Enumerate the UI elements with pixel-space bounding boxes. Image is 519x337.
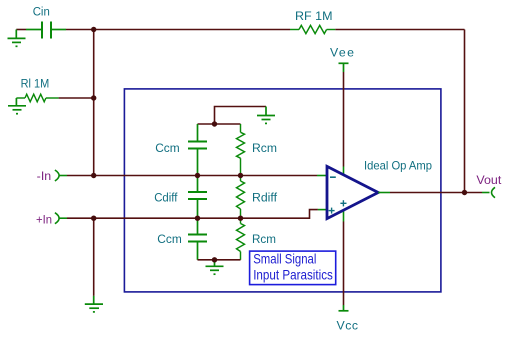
- wire: -In row: [67, 175, 317, 177]
- subcircuit box: [124, 89, 441, 292]
- wire: Rl to left rail: [59, 97, 94, 99]
- ground GND3 (bottom left): [85, 296, 103, 312]
- node: Rcm/+In junction: [238, 216, 243, 221]
- svg-text:Rl 1M: Rl 1M: [21, 77, 50, 91]
- op-amp minus mark: [330, 176, 336, 178]
- pin stub: op-amp top supply: [343, 167, 345, 177]
- pin stub: op-amp output: [378, 192, 390, 194]
- pin stub: op-amp inverting input: [317, 175, 327, 177]
- node Vcc symbol: [339, 305, 349, 311]
- op-amp plus mark (input): [329, 208, 335, 214]
- wire: op-amp bottom supply to Vcc: [343, 222, 345, 306]
- capacitor Cin: [26, 22, 66, 39]
- node: output junction: [462, 190, 467, 195]
- svg-text:Input Parasitics: Input Parasitics: [253, 266, 333, 282]
- wire: Vee to op-amp positive rail: [343, 72, 345, 167]
- capacitor Ccm (bottom): [188, 218, 207, 260]
- wire: top node to inner ground: [215, 107, 267, 125]
- wire: output to right rail junction: [390, 192, 465, 194]
- resistor Rcm (bottom): [237, 218, 245, 260]
- wire: left rail (top net vertical): [93, 30, 95, 176]
- wire: top node horizontal: [198, 123, 241, 125]
- capacitor Cdiff: [188, 176, 207, 219]
- terminal Vout: [482, 192, 490, 194]
- node: Ccm/+In junction: [195, 216, 200, 221]
- wire: bottom node horizontal: [198, 259, 241, 261]
- node: -In rail junction: [91, 173, 96, 178]
- svg-text:Ideal Op Amp: Ideal Op Amp: [364, 158, 432, 172]
- wire: top net to RF: [94, 29, 290, 31]
- resistor Rl 1M: [16, 94, 58, 102]
- wire: right vertical rail down to output: [464, 30, 466, 193]
- svg-text:Cdiff: Cdiff: [154, 190, 178, 204]
- wire: +In row: [67, 210, 318, 219]
- resistor RF 1M: [290, 25, 335, 33]
- wire: RF to right rail: [335, 29, 464, 31]
- node: top-left junction: [91, 27, 96, 32]
- svg-text:Rcm: Rcm: [252, 232, 276, 246]
- wire: Cin to node A: [66, 29, 94, 31]
- svg-text:-In: -In: [37, 169, 52, 183]
- resistor Rcm (top): [237, 124, 245, 176]
- svg-text:Vout: Vout: [476, 173, 502, 187]
- op-amp plus mark (supply): [340, 200, 346, 206]
- ground GND4 (top inner): [257, 107, 275, 124]
- node: Rcm/-In junction: [238, 173, 243, 178]
- terminal +In: [55, 213, 59, 224]
- ground GND2 (left of Rl): [8, 98, 26, 114]
- svg-text:Ccm: Ccm: [155, 141, 180, 155]
- capacitor Ccm (top): [188, 124, 207, 176]
- terminal -In: [55, 170, 59, 181]
- svg-text:Rdiff: Rdiff: [252, 190, 278, 204]
- svg-text:RF 1M: RF 1M: [295, 9, 333, 23]
- ground GND1 (left of Cin): [8, 30, 26, 47]
- svg-text:Small Signal: Small Signal: [253, 251, 316, 267]
- svg-text:Vee: Vee: [330, 45, 354, 59]
- pin stub: op-amp bottom supply: [343, 210, 345, 222]
- node: +In rail junction: [91, 216, 96, 221]
- svg-text:Rcm: Rcm: [252, 141, 277, 155]
- wire: Cin ground to Cin: [16, 29, 26, 31]
- node: bottom ground junction: [212, 257, 217, 262]
- op-amp U1 (ideal): [327, 166, 378, 218]
- node: top ground junction: [212, 121, 217, 126]
- svg-text:Ccm: Ccm: [157, 232, 182, 246]
- annotation box: Small Signal Input Parasitics: [250, 251, 336, 285]
- node: Ccm/-In junction: [195, 173, 200, 178]
- node: Rl junction: [91, 95, 96, 100]
- pin stub: op-amp non-inverting input: [318, 209, 327, 211]
- svg-text:+In: +In: [36, 212, 52, 226]
- wire: junction to Vout terminal: [465, 192, 483, 194]
- node Vee symbol: [339, 63, 349, 72]
- ground GND5 (bottom inner): [206, 260, 224, 274]
- svg-text:Cin: Cin: [33, 4, 50, 18]
- resistor Rdiff: [237, 176, 245, 219]
- svg-text:Vcc: Vcc: [337, 318, 359, 332]
- wire: +In rail down to ground: [93, 218, 95, 296]
